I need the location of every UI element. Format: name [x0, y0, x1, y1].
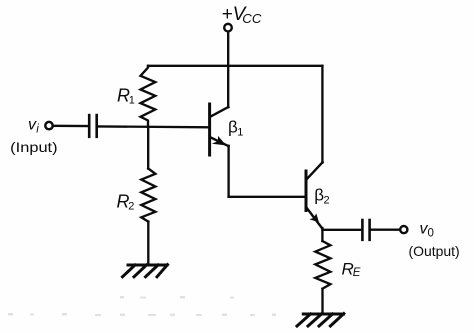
svg-text:CC: CC: [242, 11, 262, 26]
ground right: [297, 314, 344, 326]
label vi: [28, 117, 39, 136]
ground left: [123, 265, 168, 277]
transistor Q2 emitter diagonal: [307, 208, 323, 229]
label R2: [117, 192, 135, 213]
svg-text:0: 0: [428, 227, 434, 239]
transistor Q1 collector diagonal: [210, 107, 228, 117]
wire emitter node to output capacitor: [322, 229, 362, 231]
wire emitter node to RE: [321, 228, 323, 241]
wire RE bottom lead to ground: [321, 289, 323, 314]
wire input terminal to capacitor: [54, 125, 88, 128]
svg-text:i: i: [36, 124, 39, 136]
wire Q2 collector vertical to rail: [321, 66, 323, 163]
transistor Q2 emitter arrow: [309, 214, 319, 223]
svg-text:(Input): (Input): [10, 139, 57, 155]
svg-text:E: E: [353, 267, 361, 279]
wire top supply rail: [148, 65, 322, 67]
wire Q1 emitter vertical: [227, 146, 229, 197]
svg-text:(Output): (Output): [409, 243, 460, 259]
svg-text:2: 2: [324, 194, 330, 206]
transistor Q1 base bar: [208, 104, 211, 155]
transistor Q2 base bar: [305, 171, 308, 211]
resistor RE: [315, 241, 330, 289]
svg-text:2: 2: [128, 200, 134, 212]
wire R2 top lead from base node: [147, 127, 149, 169]
transistor Q2 collector diagonal: [307, 162, 323, 179]
label beta2: [314, 186, 329, 207]
svg-text:1: 1: [129, 94, 135, 106]
wire capacitor to Q1 base: [98, 125, 210, 128]
wire capacitor to output terminal: [371, 229, 400, 231]
transistor Q1 emitter diagonal: [210, 137, 228, 146]
output terminal v0: [400, 226, 407, 233]
capacitor C input coupling: [89, 115, 97, 137]
wire R2 bottom lead to ground: [147, 222, 149, 265]
label R1: [117, 86, 135, 107]
label +VCC: [222, 4, 262, 26]
svg-text:1: 1: [237, 126, 243, 138]
transistor Q1 emitter arrow: [212, 136, 226, 146]
wire VCC drop to Q1 collector: [227, 32, 229, 107]
wire Q1 emitter to Q2 base: [229, 196, 306, 198]
label v0: [420, 220, 434, 239]
resistor R2: [141, 169, 155, 222]
capacitor C output coupling: [362, 220, 369, 240]
resistor R1: [141, 66, 156, 127]
power terminal +VCC: [224, 24, 232, 32]
label beta1: [228, 118, 243, 139]
input terminal vi: [45, 122, 52, 129]
label RE: [342, 260, 361, 280]
